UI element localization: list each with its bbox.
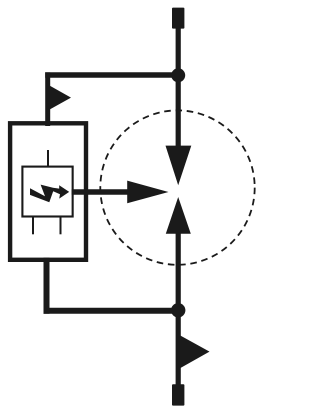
- wire top horizontal: [45, 72, 178, 78]
- node junction top: [171, 68, 185, 82]
- pin stub top: [47, 150, 49, 167]
- electrode arrow up: [166, 197, 191, 234]
- wire bottom horizontal: [44, 308, 179, 314]
- node junction bottom: [171, 303, 185, 317]
- isolating spark gap (dashed circle): [100, 110, 254, 264]
- surge protective device box: [10, 123, 86, 259]
- wire main vertical upper segment: [176, 26, 181, 147]
- pin stub bottom left: [32, 217, 34, 235]
- terminal bottom: [172, 384, 184, 405]
- SPD element inner square: [22, 167, 72, 217]
- wire main vertical lower segment: [176, 233, 181, 386]
- arrow surge direction top-left: [50, 86, 71, 110]
- terminal top: [172, 8, 184, 29]
- wire horizontal arrow shaft: [72, 189, 130, 194]
- wire top-left vertical: [45, 72, 50, 126]
- pin stub bottom right: [60, 217, 62, 235]
- lightning bolt symbol: [30, 185, 69, 203]
- electrode arrow down: [166, 146, 192, 186]
- arrowhead pointing right to spark gap: [127, 181, 168, 204]
- wire bottom-left vertical: [44, 258, 50, 314]
- arrow surge direction bottom-right: [178, 334, 210, 369]
